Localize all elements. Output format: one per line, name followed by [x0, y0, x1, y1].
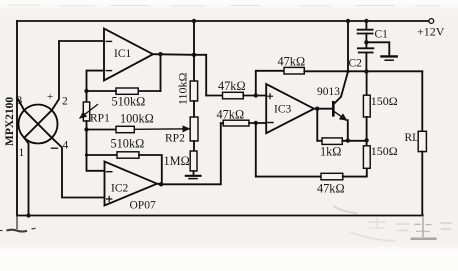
- scan noise top edge: [8, 5, 440, 6]
- svg-text:OP07: OP07: [130, 200, 156, 212]
- node base resistor tap: [315, 107, 319, 111]
- wire collector to top rail: [347, 21, 349, 72]
- wire long row to RL column: [304, 70, 422, 72]
- svg-text:+12V: +12V: [417, 25, 445, 39]
- svg-text:47kΩ: 47kΩ: [317, 182, 345, 196]
- wire tap to IC3 plus row: [194, 55, 206, 96]
- wire RP2 to 1M: [193, 141, 195, 151]
- junction pin1/bottom rail: [26, 213, 30, 217]
- svg-text:3: 3: [17, 95, 23, 107]
- resistor 510k second: [117, 152, 139, 158]
- wire node B to 100k: [87, 129, 117, 131]
- svg-text:47kΩ: 47kΩ: [217, 108, 245, 122]
- wire IC3 output: [314, 108, 332, 110]
- wire IC2 output to 47k second: [157, 123, 221, 184]
- ground bottom right faint: [411, 216, 437, 239]
- node divider mid: [364, 138, 368, 142]
- resistor 47k fourth: [321, 173, 343, 180]
- node B: [84, 127, 88, 131]
- svg-text:RP1: RP1: [90, 113, 110, 125]
- node emitter: [346, 138, 350, 142]
- svg-text:C2: C2: [349, 58, 363, 70]
- wire node B down to 510k second row: [86, 130, 88, 156]
- resistor 47k first: [223, 92, 244, 99]
- svg-text:47kΩ: 47kΩ: [218, 79, 246, 93]
- wire 510k second to IC2 output: [139, 155, 162, 184]
- sensor MPX2100: [19, 105, 58, 144]
- watermark bottom right: [333, 206, 452, 241]
- wire tap down to 1k: [316, 109, 318, 141]
- resistor 47k second: [223, 120, 249, 126]
- wire 100k to RP2 wiper arrow: [134, 128, 189, 131]
- svg-text:2: 2: [62, 96, 68, 108]
- wire hysteresis up: [256, 71, 284, 96]
- node IC3 inverting: [254, 121, 258, 125]
- op-amp IC1: [104, 29, 153, 81]
- wire 1k to 150 node: [342, 140, 366, 142]
- wire RP1 to node B: [86, 121, 88, 130]
- svg-text:4: 4: [63, 140, 69, 152]
- svg-text:100kΩ: 100kΩ: [120, 112, 154, 126]
- wire feedback column down: [255, 123, 257, 177]
- wire pin 2 to IC1 inverting input: [52, 41, 104, 110]
- node 510k second left: [85, 153, 88, 156]
- resistor 150 first: [363, 72, 370, 141]
- wire 47k second to IC3 inverting input: [249, 122, 266, 124]
- junction column/top rail: [192, 19, 196, 23]
- resistor 510k first: [116, 88, 138, 94]
- wire pin 4 to IC2 non-inverting input: [52, 138, 105, 198]
- svg-text:IC1: IC1: [114, 48, 132, 60]
- wire 510k to node A: [87, 90, 117, 92]
- wire 110k to RP2: [193, 101, 195, 117]
- wire pin 1 to bottom rail: [24, 138, 28, 216]
- junction collector column: [346, 70, 349, 73]
- svg-text:+: +: [47, 91, 53, 103]
- wire feedback to 510k: [138, 90, 160, 92]
- resistor 1k: [322, 138, 342, 145]
- svg-text:IC3: IC3: [274, 104, 292, 116]
- wire IC1 non-inverting input: [87, 71, 105, 91]
- junction C1/top rail: [364, 19, 368, 23]
- svg-text:47kΩ: 47kΩ: [278, 55, 306, 69]
- ground at C midpoint: [366, 42, 396, 60]
- svg-text:RL: RL: [405, 132, 420, 144]
- svg-text:150Ω: 150Ω: [371, 94, 398, 108]
- potentiometer RP1: [80, 102, 98, 121]
- wire to 510k second: [87, 154, 118, 156]
- junction capacitor column: [364, 69, 368, 73]
- svg-text:RP2: RP2: [165, 133, 185, 145]
- junction at 110k column: [192, 53, 196, 57]
- junction collector/top rail: [346, 19, 350, 23]
- resistor 47k third: [284, 67, 304, 74]
- ground below 1M: [186, 171, 201, 179]
- terminal +12V: [429, 19, 434, 24]
- svg-text:510kΩ: 510kΩ: [111, 137, 145, 151]
- svg-text:150Ω: 150Ω: [371, 144, 398, 158]
- wire IC3 plus input row: [206, 95, 222, 97]
- wire top supply rail: [17, 20, 429, 22]
- node A: [84, 89, 88, 93]
- node hysteresis tap: [254, 93, 258, 97]
- wire IC1 feedback vertical: [160, 54, 162, 91]
- transistor Q1 9013: [333, 72, 348, 141]
- node IC2 output: [159, 182, 163, 186]
- wire bottom feedback row: [256, 176, 321, 178]
- svg-text:110kΩ: 110kΩ: [176, 72, 190, 105]
- pin label minus: [52, 147, 58, 149]
- resistor 150 second: [363, 140, 370, 168]
- svg-text:1: 1: [19, 147, 25, 159]
- svg-text:MPX2100: MPX2100: [4, 97, 16, 146]
- resistor 1M: [190, 151, 197, 171]
- node C1 C2 midpoint: [364, 40, 368, 44]
- svg-text:9013: 9013: [317, 86, 340, 98]
- potentiometer RP2: [190, 117, 198, 141]
- capacitor C1: [358, 21, 373, 42]
- svg-text:IC2: IC2: [111, 183, 129, 195]
- wire left rail: [16, 21, 18, 216]
- op-amp IC2: [105, 162, 158, 206]
- svg-text:C1: C1: [375, 29, 389, 41]
- ground bottom left small: [0, 216, 36, 232]
- svg-text:1kΩ: 1kΩ: [320, 145, 341, 159]
- wire node A to RP1: [86, 91, 88, 102]
- wire node to IC2 inverting input: [87, 155, 105, 171]
- wire 47k fourth to 150 bottom: [343, 168, 367, 176]
- op-amp IC3: [266, 84, 314, 133]
- wire 47k first to IC3: [243, 95, 266, 97]
- capacitor C2: [358, 42, 374, 71]
- wire 47k second stub left: [221, 122, 223, 124]
- resistor RL: [418, 72, 426, 216]
- svg-text:1MΩ: 1MΩ: [164, 154, 190, 168]
- wire IC1 output: [153, 53, 194, 56]
- wire bottom rail: [17, 215, 423, 217]
- node IC1 output: [158, 52, 162, 56]
- wire emitter row: [317, 140, 322, 142]
- wire pin 3 stub: [17, 98, 24, 111]
- resistor 100k: [116, 126, 134, 132]
- wire column from top rail to 110k: [193, 21, 195, 81]
- svg-text:510kΩ: 510kΩ: [112, 95, 146, 109]
- resistor 110k: [190, 81, 197, 101]
